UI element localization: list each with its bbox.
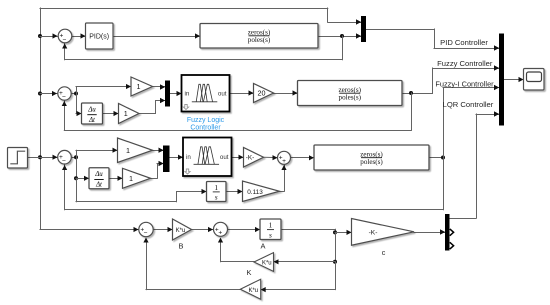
svg-text:s: s	[215, 193, 218, 202]
svg-text:K*u: K*u	[176, 228, 186, 234]
svg-text:out: out	[218, 90, 227, 97]
svg-text:poles(s): poles(s)	[339, 93, 362, 101]
svg-text:-K-: -K-	[369, 230, 378, 237]
svg-text:LQR Controller: LQR Controller	[443, 100, 494, 109]
svg-text:−: −	[62, 37, 66, 44]
svg-text:PID Controller: PID Controller	[440, 38, 488, 47]
svg-text:in: in	[186, 154, 191, 161]
svg-text:Δu: Δu	[94, 171, 103, 178]
svg-text:−: −	[144, 230, 148, 237]
svg-text:K*u: K*u	[262, 261, 272, 267]
svg-text:A: A	[261, 242, 266, 251]
svg-text:out: out	[220, 154, 229, 161]
svg-text:1: 1	[124, 109, 128, 118]
svg-text:poles(s): poles(s)	[248, 36, 271, 44]
svg-text:in: in	[185, 90, 190, 97]
svg-text:Controller: Controller	[190, 124, 221, 131]
svg-text:−: −	[62, 94, 66, 101]
svg-text:-K-: -K-	[246, 155, 255, 162]
svg-text:20: 20	[258, 89, 266, 98]
svg-text:s: s	[269, 230, 272, 239]
svg-text:1: 1	[214, 183, 218, 192]
svg-text:0.113: 0.113	[247, 189, 263, 196]
svg-text:1: 1	[269, 221, 273, 230]
svg-text:−: −	[62, 158, 66, 165]
svg-text:B: B	[179, 242, 184, 251]
svg-text:1: 1	[129, 174, 133, 183]
svg-text:Fuzzy Controller: Fuzzy Controller	[437, 59, 493, 68]
svg-text:c: c	[382, 248, 386, 257]
svg-text:K: K	[247, 268, 252, 277]
svg-text:1: 1	[137, 82, 141, 91]
svg-text:K*u: K*u	[248, 288, 258, 294]
svg-text:Fuzzy Logic: Fuzzy Logic	[187, 117, 225, 124]
svg-text:Δt: Δt	[95, 182, 103, 189]
svg-text:Δu: Δu	[87, 106, 96, 113]
svg-text:+: +	[282, 158, 286, 165]
svg-text:Δt: Δt	[88, 117, 96, 124]
svg-text:1: 1	[126, 146, 130, 155]
svg-text:Fuzzy-I Controller: Fuzzy-I Controller	[435, 79, 494, 88]
svg-text:+: +	[218, 229, 222, 236]
svg-text:PID(s): PID(s)	[89, 33, 109, 40]
svg-text:poles(s): poles(s)	[360, 158, 383, 166]
